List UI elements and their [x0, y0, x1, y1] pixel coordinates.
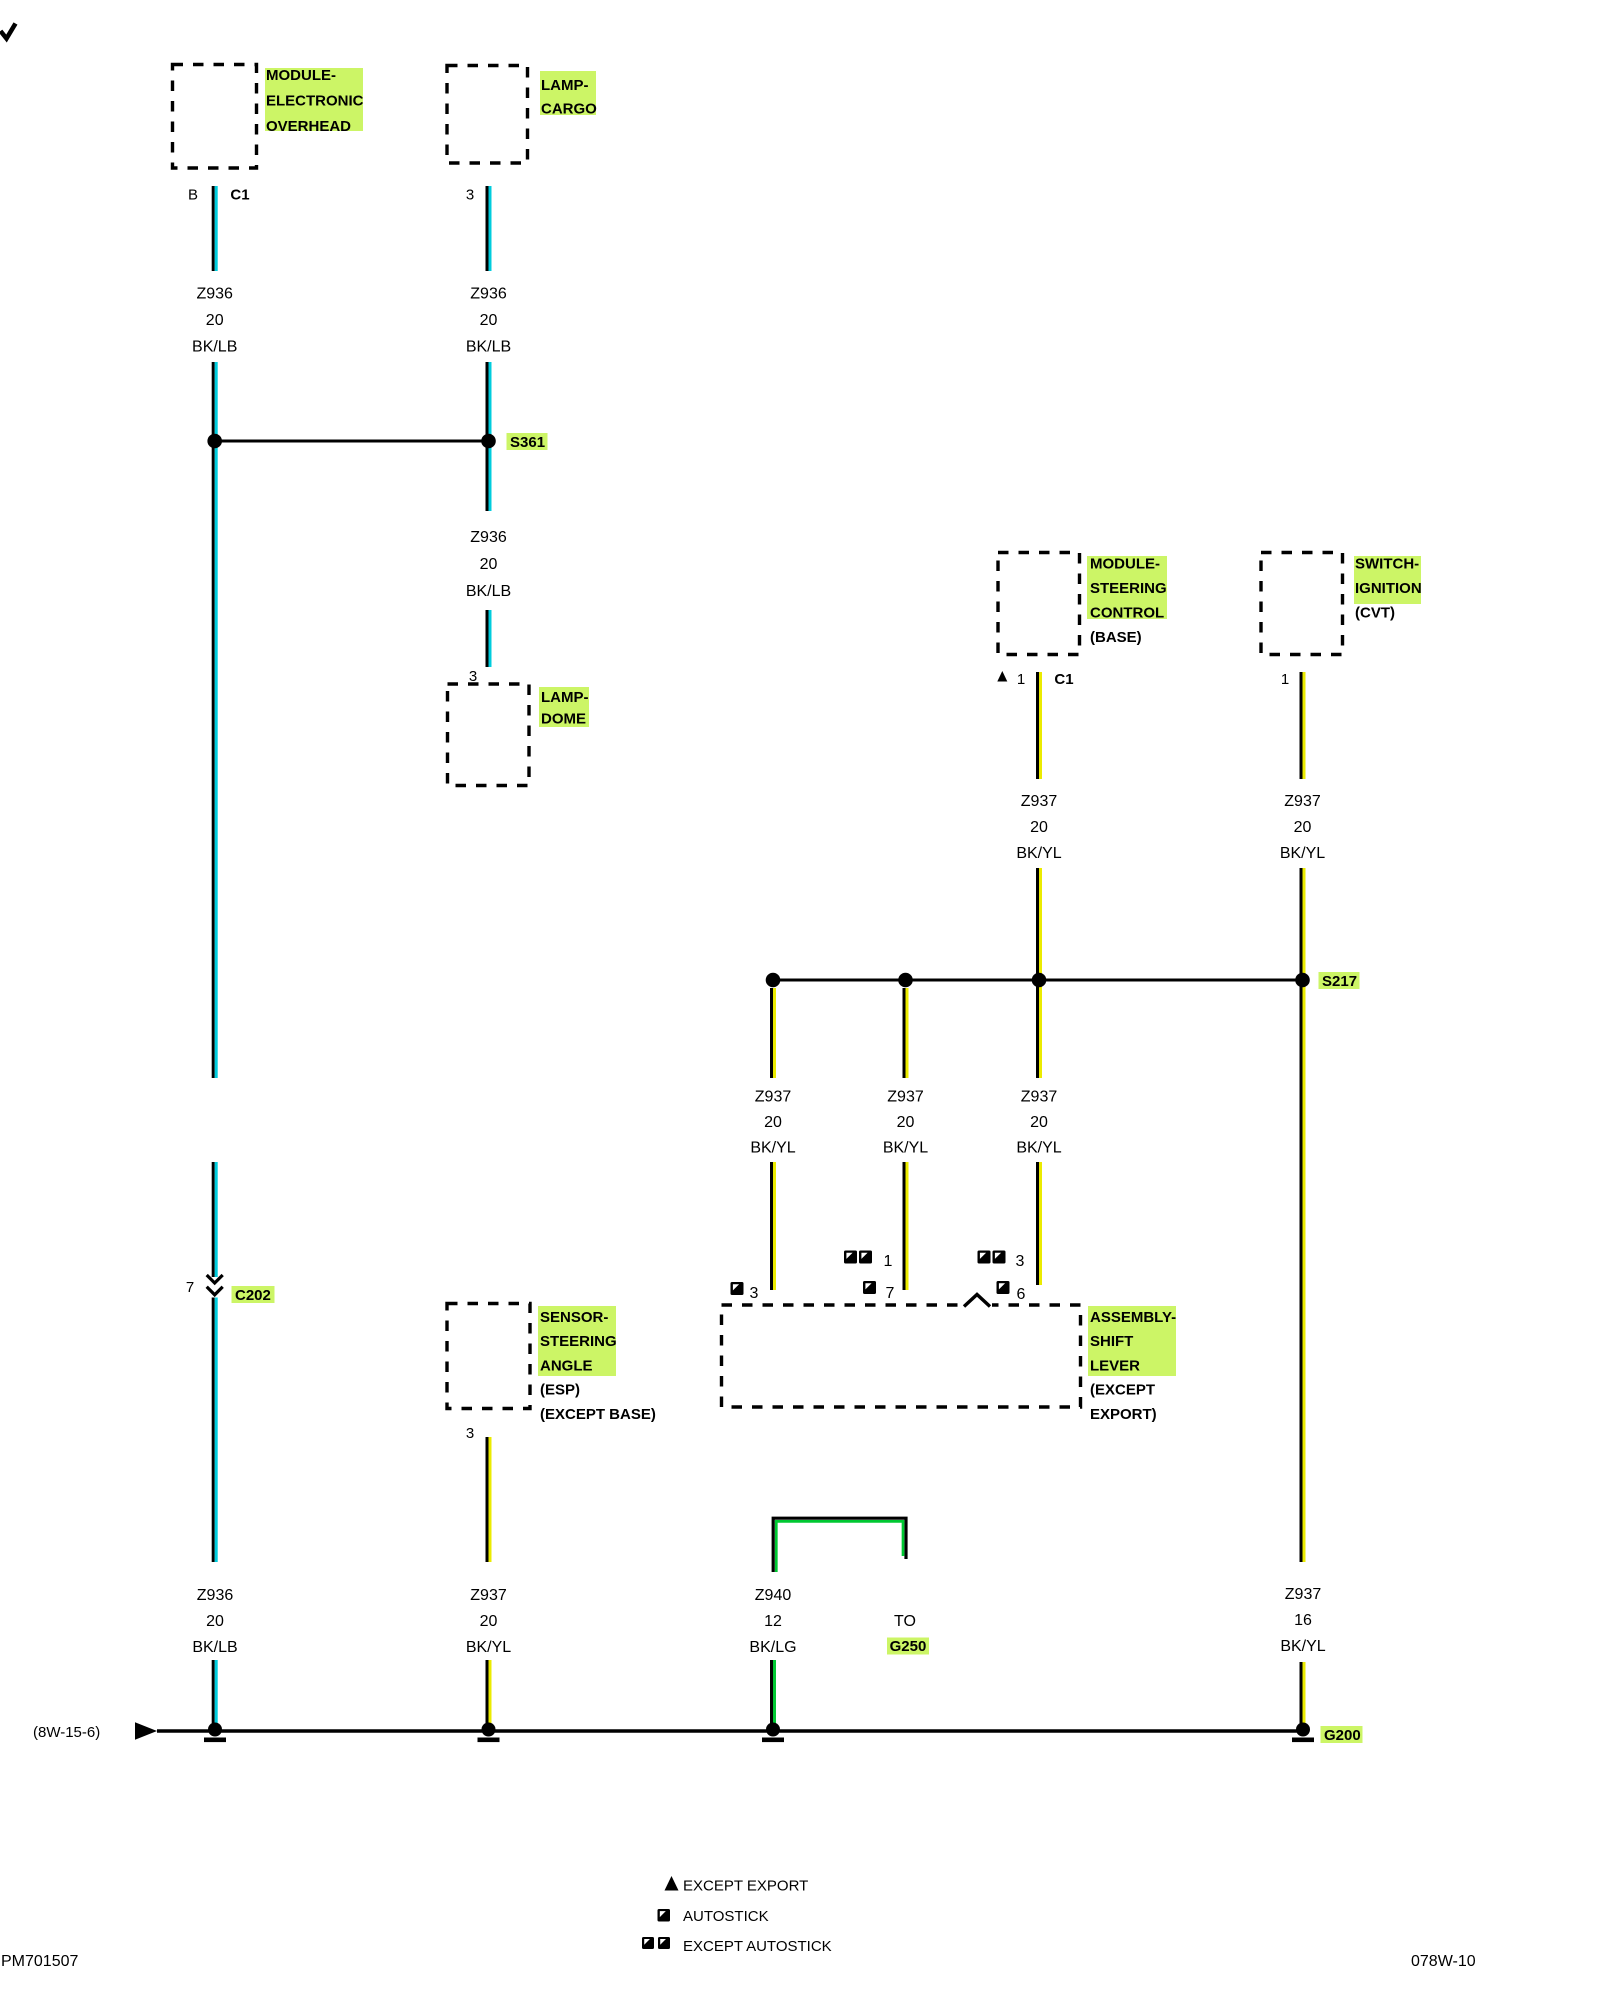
- svg-text:STEERING: STEERING: [1090, 580, 1167, 597]
- svg-text:ANGLE: ANGLE: [540, 1357, 593, 1374]
- svg-text:BK/LB: BK/LB: [192, 339, 237, 356]
- svg-text:078W-10: 078W-10: [1411, 1953, 1476, 1970]
- svg-text:C1: C1: [1054, 671, 1073, 688]
- svg-text:BK/YL: BK/YL: [883, 1140, 928, 1157]
- svg-text:BK/YL: BK/YL: [1280, 1638, 1325, 1655]
- svg-text:20: 20: [1294, 819, 1312, 836]
- svg-text:Z937: Z937: [1284, 793, 1321, 810]
- svg-text:1: 1: [1017, 671, 1025, 688]
- svg-text:(BASE): (BASE): [1090, 629, 1142, 646]
- svg-text:Z937: Z937: [887, 1089, 924, 1106]
- svg-text:CARGO: CARGO: [541, 101, 597, 118]
- svg-text:OVERHEAD: OVERHEAD: [266, 118, 351, 135]
- svg-text:Z937: Z937: [470, 1587, 507, 1604]
- svg-text:(ESP): (ESP): [540, 1382, 580, 1399]
- svg-text:BK/YL: BK/YL: [750, 1140, 795, 1157]
- svg-text:AUTOSTICK: AUTOSTICK: [683, 1908, 769, 1925]
- svg-text:BK/LB: BK/LB: [466, 583, 511, 600]
- svg-text:DOME: DOME: [541, 711, 586, 728]
- svg-text:20: 20: [480, 312, 498, 329]
- svg-text:16: 16: [1294, 1612, 1312, 1629]
- svg-text:MODULE-: MODULE-: [1090, 556, 1160, 573]
- svg-text:IGNITION: IGNITION: [1355, 580, 1422, 597]
- svg-text:SWITCH-: SWITCH-: [1355, 556, 1419, 573]
- svg-text:Z936: Z936: [196, 286, 233, 303]
- svg-text:LEVER: LEVER: [1090, 1357, 1140, 1374]
- svg-text:20: 20: [1030, 1114, 1048, 1131]
- svg-text:Z936: Z936: [197, 1587, 234, 1604]
- svg-text:ASSEMBLY-: ASSEMBLY-: [1090, 1309, 1176, 1326]
- svg-text:SENSOR-: SENSOR-: [540, 1309, 608, 1326]
- svg-text:3: 3: [750, 1285, 759, 1302]
- svg-text:(EXCEPT BASE): (EXCEPT BASE): [540, 1406, 656, 1423]
- svg-text:MODULE-: MODULE-: [266, 67, 336, 84]
- svg-text:BK/YL: BK/YL: [1016, 845, 1061, 862]
- svg-text:(CVT): (CVT): [1355, 605, 1395, 622]
- svg-text:C202: C202: [235, 1287, 271, 1304]
- svg-text:(EXCEPT: (EXCEPT: [1090, 1382, 1155, 1399]
- svg-text:BK/LB: BK/LB: [466, 339, 511, 356]
- svg-text:(8W-15-6): (8W-15-6): [33, 1724, 100, 1741]
- svg-text:20: 20: [897, 1114, 915, 1131]
- svg-text:SHIFT: SHIFT: [1090, 1333, 1133, 1350]
- svg-text:3: 3: [466, 187, 474, 204]
- svg-text:1: 1: [884, 1253, 893, 1270]
- svg-text:EXCEPT AUTOSTICK: EXCEPT AUTOSTICK: [683, 1938, 832, 1955]
- svg-text:Z936: Z936: [470, 286, 507, 303]
- svg-text:Z937: Z937: [1021, 793, 1058, 810]
- svg-text:20: 20: [480, 556, 498, 573]
- svg-text:3: 3: [1016, 1253, 1025, 1270]
- svg-text:7: 7: [186, 1279, 194, 1296]
- svg-text:LAMP-: LAMP-: [541, 689, 589, 706]
- svg-text:12: 12: [764, 1613, 782, 1630]
- svg-text:3: 3: [469, 668, 477, 685]
- svg-text:20: 20: [206, 312, 224, 329]
- svg-text:20: 20: [480, 1613, 498, 1630]
- svg-text:CONTROL: CONTROL: [1090, 605, 1164, 622]
- svg-text:EXPORT): EXPORT): [1090, 1406, 1157, 1423]
- svg-text:BK/YL: BK/YL: [1280, 845, 1325, 862]
- svg-text:Z937: Z937: [755, 1089, 792, 1106]
- svg-text:B: B: [188, 187, 198, 204]
- svg-text:EXCEPT EXPORT: EXCEPT EXPORT: [683, 1878, 808, 1895]
- svg-text:BK/YL: BK/YL: [466, 1639, 511, 1656]
- svg-text:PM701507: PM701507: [1, 1953, 78, 1970]
- svg-text:STEERING: STEERING: [540, 1333, 617, 1350]
- svg-text:S217: S217: [1322, 973, 1357, 990]
- svg-text:TO: TO: [894, 1613, 916, 1630]
- svg-text:S361: S361: [510, 434, 545, 451]
- svg-text:BK/LB: BK/LB: [192, 1639, 237, 1656]
- svg-text:G250: G250: [890, 1638, 927, 1655]
- svg-text:3: 3: [466, 1425, 474, 1442]
- svg-text:C1: C1: [230, 187, 249, 204]
- svg-text:ELECTRONIC: ELECTRONIC: [266, 93, 364, 110]
- svg-text:G200: G200: [1324, 1727, 1361, 1744]
- svg-text:LAMP-: LAMP-: [541, 77, 589, 94]
- svg-text:Z937: Z937: [1021, 1089, 1058, 1106]
- svg-text:20: 20: [206, 1613, 224, 1630]
- svg-text:Z936: Z936: [470, 529, 507, 546]
- svg-text:BK/YL: BK/YL: [1016, 1140, 1061, 1157]
- svg-text:Z940: Z940: [755, 1587, 792, 1604]
- svg-text:6: 6: [1017, 1286, 1026, 1303]
- svg-text:1: 1: [1281, 671, 1289, 688]
- svg-text:Z937: Z937: [1285, 1586, 1322, 1603]
- svg-text:7: 7: [886, 1285, 895, 1302]
- svg-text:20: 20: [764, 1114, 782, 1131]
- svg-text:BK/LG: BK/LG: [749, 1639, 796, 1656]
- svg-text:20: 20: [1030, 819, 1048, 836]
